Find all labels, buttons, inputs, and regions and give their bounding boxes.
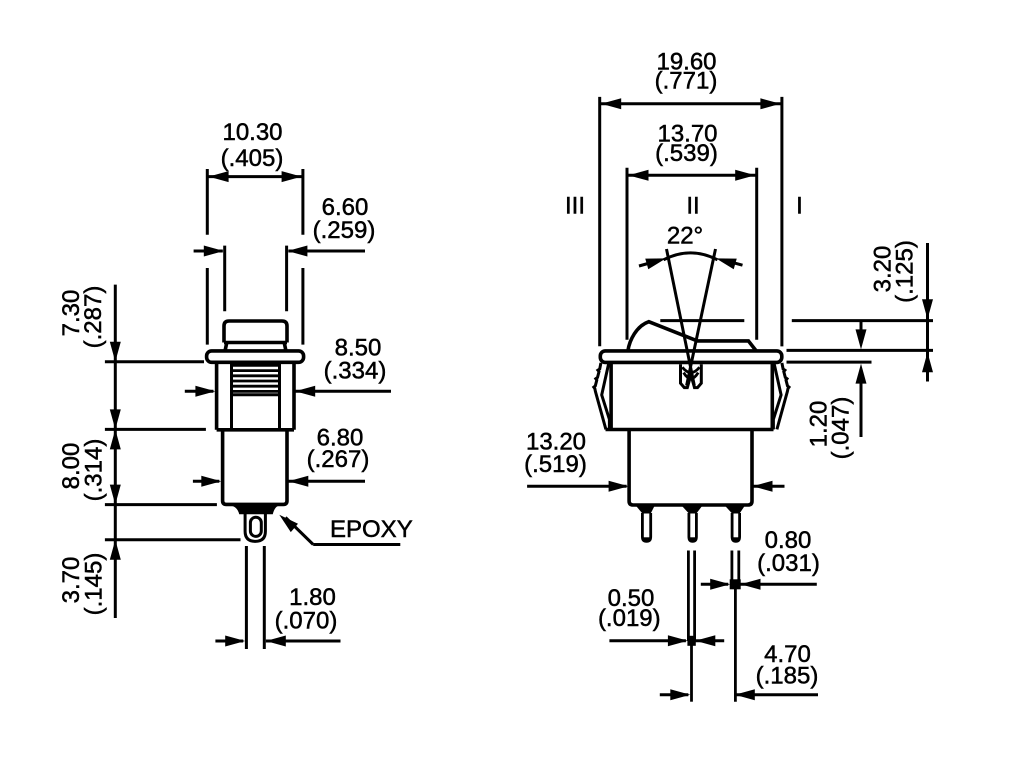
pin 3 root (black) xyxy=(723,504,746,514)
middle pin reference lines xyxy=(688,551,694,702)
right snap tab xyxy=(773,363,789,430)
position labels III II I xyxy=(565,193,803,220)
bushing inner walls xyxy=(232,363,280,430)
knob top xyxy=(224,321,287,343)
knob lower trapezoid xyxy=(225,343,286,351)
svg-text:III: III xyxy=(565,193,585,220)
dimension 0.80 (.031) xyxy=(701,527,820,590)
terminal with hole xyxy=(245,514,265,542)
rocker tilt fan lines xyxy=(667,249,716,386)
dimension 6.80 (.267) xyxy=(193,424,369,486)
dimension 13.20 (.519) xyxy=(524,428,784,491)
svg-text:(.267): (.267) xyxy=(307,446,370,473)
flange side view xyxy=(207,351,304,362)
dimension 1.20 (.047) rotated xyxy=(806,322,867,459)
flange top extension line xyxy=(787,349,934,352)
svg-text:(.539): (.539) xyxy=(655,140,718,167)
lower body xyxy=(223,430,287,505)
svg-text:EPOXY: EPOXY xyxy=(330,516,413,543)
dimension 19.60 (.771) xyxy=(600,48,782,346)
svg-text:(.145): (.145) xyxy=(81,553,108,616)
flange bottom extension line xyxy=(787,361,872,364)
pin 1 root (black) xyxy=(634,504,656,514)
rocker top reference line xyxy=(660,319,933,322)
rocker actuator profile xyxy=(628,322,756,351)
pin 1 xyxy=(642,513,650,541)
dimension 6.60 (.259) xyxy=(194,194,376,311)
svg-text:(.287): (.287) xyxy=(80,286,107,349)
svg-text:(.334): (.334) xyxy=(324,357,387,384)
dimension 8.00 (.314) rotated xyxy=(58,439,108,502)
svg-text:(.047): (.047) xyxy=(828,397,855,460)
dimension 7.30 (.287) rotated xyxy=(58,286,107,349)
svg-text:22°: 22° xyxy=(667,222,703,249)
dimension 1.80 (.070) xyxy=(215,584,340,646)
svg-text:(.070): (.070) xyxy=(275,608,338,635)
dimension 4.70 (.185) xyxy=(660,641,819,700)
terminal pin lines xyxy=(246,546,264,649)
dimension 3.20 (.125) rotated xyxy=(870,240,934,381)
svg-text:(.185): (.185) xyxy=(756,662,819,689)
dimension 8.50 (.334) xyxy=(185,335,391,397)
svg-text:(.259): (.259) xyxy=(313,217,376,244)
svg-text:I: I xyxy=(796,193,803,220)
pin 2 xyxy=(689,513,697,541)
svg-text:(.519): (.519) xyxy=(524,451,587,478)
svg-text:(.314): (.314) xyxy=(81,439,108,502)
svg-text:(.019): (.019) xyxy=(598,605,661,632)
vertical chain dimension line xyxy=(105,285,241,618)
svg-text:(.771): (.771) xyxy=(655,68,718,95)
dimension 13.70 (.539) xyxy=(627,120,757,339)
angle 22 degrees xyxy=(639,222,743,269)
bushing outer walls xyxy=(217,363,294,430)
right pin reference lines xyxy=(732,551,739,702)
flange front view xyxy=(600,351,782,363)
EPOXY label and leader xyxy=(276,511,413,545)
thread lines xyxy=(232,365,280,394)
bushing bottom step xyxy=(217,428,294,432)
svg-text:(.125): (.125) xyxy=(892,240,919,303)
dimension 0.50 (.019) xyxy=(598,585,724,646)
left snap tab xyxy=(594,363,610,430)
upper body front view xyxy=(606,363,774,430)
lower body front view xyxy=(629,430,752,506)
dimension 3.70 (.145) rotated xyxy=(58,553,108,616)
pivot spring detail xyxy=(681,364,702,387)
dimension 10.30 (.405) xyxy=(207,119,303,345)
pin 3 xyxy=(732,513,740,541)
svg-text:10.30: 10.30 xyxy=(222,119,282,146)
svg-text:(.405): (.405) xyxy=(221,145,284,172)
svg-text:(.031): (.031) xyxy=(757,550,820,577)
epoxy seal (black) xyxy=(230,505,280,514)
svg-text:II: II xyxy=(686,193,699,220)
pin 2 root (black) xyxy=(680,504,704,514)
